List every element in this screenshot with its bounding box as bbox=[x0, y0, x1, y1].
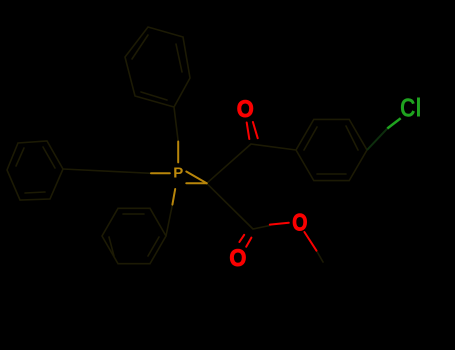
svg-text:O: O bbox=[292, 209, 307, 236]
svg-text:P: P bbox=[173, 165, 183, 182]
svg-text:Cl: Cl bbox=[400, 95, 422, 123]
svg-text:O: O bbox=[237, 96, 254, 123]
svg-text:O: O bbox=[229, 245, 246, 272]
